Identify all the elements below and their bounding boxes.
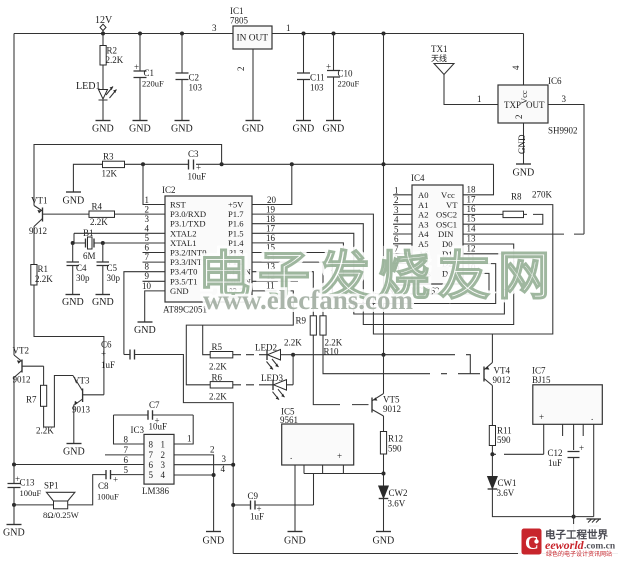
svg-text:IC6: IC6 <box>548 76 562 86</box>
svg-text:103: 103 <box>310 83 324 93</box>
svg-text:17: 17 <box>266 224 276 234</box>
svg-text:8: 8 <box>124 435 129 445</box>
ground (LED1) <box>96 120 111 122</box>
resistor R8 270K (OSC2-OSC1) <box>463 213 503 215</box>
svg-text:R9: R9 <box>296 316 307 326</box>
svg-text:1: 1 <box>145 195 150 205</box>
svg-text:+: + <box>326 62 331 72</box>
svg-text:GND: GND <box>171 124 193 135</box>
svg-text:14: 14 <box>467 224 477 234</box>
svg-text:P3.4/T0: P3.4/T0 <box>170 267 197 277</box>
svg-text:5: 5 <box>149 470 154 480</box>
svg-text:LED3: LED3 <box>261 373 283 383</box>
ground (IC6 pin2) <box>523 123 525 164</box>
svg-text:GND: GND <box>129 124 151 135</box>
svg-text:220uF: 220uF <box>142 79 164 89</box>
svg-text:LED2: LED2 <box>255 343 277 353</box>
svg-text:2: 2 <box>394 195 399 205</box>
resistor R4 <box>89 211 115 217</box>
wire +5V distribution line <box>125 163 189 165</box>
svg-text:A4: A4 <box>418 229 429 239</box>
svg-text:1: 1 <box>394 186 399 196</box>
svg-text:3: 3 <box>161 460 166 470</box>
svg-text:3.6V: 3.6V <box>388 499 406 509</box>
svg-text:2: 2 <box>514 115 524 120</box>
svg-text:8: 8 <box>149 440 154 450</box>
svg-text:4: 4 <box>145 224 150 234</box>
svg-text:Vcc: Vcc <box>519 90 529 104</box>
svg-text:+: + <box>101 349 106 359</box>
svg-text:15: 15 <box>467 214 477 224</box>
svg-text:3: 3 <box>222 454 227 464</box>
svg-text:GND: GND <box>373 536 395 547</box>
svg-text:OSC2: OSC2 <box>436 210 457 220</box>
svg-text:2: 2 <box>236 67 246 72</box>
svg-text:R1: R1 <box>38 264 49 274</box>
svg-text:P1.6: P1.6 <box>228 219 244 229</box>
svg-text:VT2: VT2 <box>13 346 30 356</box>
svg-text:2: 2 <box>210 445 215 455</box>
wire P1.3 to IC4 D3 (pin10) <box>252 253 489 295</box>
svg-text:+5V: +5V <box>228 200 244 210</box>
svg-text:30p: 30p <box>76 273 90 283</box>
svg-text:1uF: 1uF <box>548 458 562 468</box>
wire IC2 pin9 stub <box>143 280 166 282</box>
svg-text:7: 7 <box>149 450 154 460</box>
svg-text:R2: R2 <box>107 46 118 56</box>
svg-text:3: 3 <box>562 94 567 104</box>
svg-text:RST: RST <box>170 200 187 210</box>
svg-text:VT1: VT1 <box>31 196 48 206</box>
svg-text:9: 9 <box>145 271 150 281</box>
wire IC5 pins <box>294 465 296 532</box>
svg-text:TX1: TX1 <box>431 44 448 54</box>
svg-text:C5: C5 <box>107 263 118 273</box>
wire IC2 pin8 to C6 <box>124 272 165 355</box>
svg-text:IC2: IC2 <box>162 185 176 195</box>
svg-text:5: 5 <box>124 465 129 475</box>
svg-text:6: 6 <box>124 455 129 465</box>
svg-text:R11: R11 <box>497 426 512 436</box>
wire IC2 pin6 stub <box>143 252 166 254</box>
svg-text:5: 5 <box>394 225 399 235</box>
svg-text:GND: GND <box>63 447 85 458</box>
svg-text:8: 8 <box>145 262 150 272</box>
svg-text:C1: C1 <box>144 68 155 78</box>
svg-text:VT4: VT4 <box>494 366 511 376</box>
capacitor C8 100uF <box>106 470 111 479</box>
svg-text:P1.7: P1.7 <box>228 209 244 219</box>
svg-text:GND: GND <box>284 536 306 547</box>
resistor R2 <box>100 46 106 66</box>
svg-text:12K: 12K <box>102 169 118 179</box>
svg-text:100uF: 100uF <box>20 488 42 498</box>
svg-text:4: 4 <box>511 65 521 70</box>
svg-text:SH9902: SH9902 <box>548 126 578 136</box>
svg-text:XTAL2: XTAL2 <box>170 228 197 238</box>
wire top 12V/+5V rail <box>14 33 233 35</box>
svg-text:IC3: IC3 <box>131 425 145 435</box>
capacitor C4 30p <box>72 243 74 295</box>
wire P1.4 to IC4 D2 (pin11) <box>252 243 496 304</box>
resistor R12 590 <box>380 432 386 455</box>
svg-text:CW1: CW1 <box>498 478 517 488</box>
capacitor C10 <box>332 32 336 36</box>
svg-text:DIN: DIN <box>438 229 454 239</box>
svg-text:17: 17 <box>467 195 477 205</box>
svg-text:1: 1 <box>161 440 166 450</box>
svg-text:C9: C9 <box>248 491 259 501</box>
svg-text:IC1: IC1 <box>230 6 244 16</box>
wire P1.6 to IC4 D0 (pin13) <box>252 224 514 325</box>
svg-text:C10: C10 <box>338 69 354 79</box>
svg-text:A0: A0 <box>418 190 429 200</box>
resistor R9 <box>310 316 316 335</box>
svg-text:VT5: VT5 <box>383 395 400 405</box>
svg-text:18: 18 <box>467 185 477 195</box>
wire P1.5 to IC4 D1 (pin12) <box>252 233 504 314</box>
svg-text:1: 1 <box>286 23 291 33</box>
svg-text:GND: GND <box>62 297 84 308</box>
svg-text:OSC1: OSC1 <box>436 219 457 229</box>
svg-text:10uF: 10uF <box>149 422 168 432</box>
resistor R10 <box>320 316 326 335</box>
svg-text:GND: GND <box>92 297 114 308</box>
svg-text:270K: 270K <box>532 190 553 200</box>
wire IC3 pin2 down <box>174 455 214 532</box>
svg-text:GND: GND <box>323 124 345 135</box>
svg-text:C11: C11 <box>310 73 325 83</box>
svg-text:GND: GND <box>203 536 225 547</box>
wire IC7 pins <box>544 424 594 516</box>
svg-text:6M: 6M <box>83 251 96 261</box>
svg-text:C7: C7 <box>149 400 160 410</box>
wire bottom rail <box>233 553 618 555</box>
svg-text:R8: R8 <box>511 192 522 202</box>
svg-text:7: 7 <box>124 445 129 455</box>
svg-text:R7: R7 <box>26 395 37 405</box>
svg-text:6: 6 <box>145 243 150 253</box>
svg-text:16: 16 <box>467 204 477 214</box>
svg-text:GND: GND <box>3 528 25 539</box>
svg-text:GND: GND <box>242 124 264 135</box>
svg-text:.com.cn: .com.cn <box>584 542 616 552</box>
svg-text:590: 590 <box>388 444 402 454</box>
wire P1.7 to IC4 VT (pin17) <box>252 205 553 334</box>
svg-text:7: 7 <box>145 252 150 262</box>
wire VT1 emitter feed <box>34 145 222 206</box>
svg-text:R5: R5 <box>212 342 223 352</box>
svg-text:4: 4 <box>394 215 399 225</box>
wire IC3 pin1 to C7 <box>174 415 193 444</box>
svg-text:Vcc: Vcc <box>441 190 455 200</box>
svg-text:AT89C2051: AT89C2051 <box>163 305 207 315</box>
wire IC3 pin4 <box>174 474 214 476</box>
svg-text:C4: C4 <box>76 263 87 273</box>
svg-text:4: 4 <box>161 470 166 480</box>
svg-text:R3: R3 <box>103 152 114 162</box>
svg-text:P3.5/T1: P3.5/T1 <box>170 276 197 286</box>
svg-text:1uF: 1uF <box>101 360 115 370</box>
svg-text:IC4: IC4 <box>411 173 425 183</box>
svg-text:10: 10 <box>142 281 152 291</box>
svg-text:+: + <box>539 412 544 422</box>
svg-text:12V: 12V <box>95 15 113 26</box>
wire RST feed <box>143 164 165 204</box>
capacitor C1 <box>138 32 142 36</box>
transistor VT4 collector resistor R11 590 <box>489 426 495 446</box>
wire P3.7 to LED line <box>186 291 293 385</box>
svg-text:10uF: 10uF <box>188 172 207 182</box>
svg-text:5: 5 <box>145 233 150 243</box>
svg-text:C8: C8 <box>98 481 109 491</box>
wire LED2 line to VT4 base <box>291 353 295 357</box>
svg-text:2.2K: 2.2K <box>209 392 227 402</box>
svg-text:C2: C2 <box>189 73 200 83</box>
svg-text:19: 19 <box>266 205 276 215</box>
svg-text:GND: GND <box>293 124 315 135</box>
ground (earth, right bottom) <box>587 518 602 520</box>
svg-text:GND: GND <box>63 196 85 207</box>
svg-text:30p: 30p <box>107 273 121 283</box>
svg-text:BJ15: BJ15 <box>532 375 551 385</box>
svg-text:P3.1/TXD: P3.1/TXD <box>170 219 206 229</box>
wire P1.0 stub <box>252 280 298 282</box>
svg-text:CW2: CW2 <box>389 488 408 498</box>
svg-text:+: + <box>134 62 139 72</box>
svg-text:3: 3 <box>394 205 399 215</box>
svg-text:SP1: SP1 <box>44 481 59 491</box>
svg-text:8Ω/0.25W: 8Ω/0.25W <box>43 510 79 520</box>
svg-text:C12: C12 <box>548 448 563 458</box>
svg-text:LED1: LED1 <box>76 81 100 92</box>
svg-text:.: . <box>591 412 593 422</box>
wire +5V to IC4 Vcc (pin18) <box>463 164 494 195</box>
svg-text:3: 3 <box>212 23 217 33</box>
wire IC1 pin2 to ground <box>252 49 254 121</box>
svg-text:R12: R12 <box>388 434 403 444</box>
svg-text:2.2K: 2.2K <box>284 338 302 348</box>
wire IC3 pin6 line to left border <box>14 464 144 466</box>
svg-text:7805: 7805 <box>230 16 249 26</box>
svg-text:9013: 9013 <box>72 405 91 415</box>
svg-text:IN OUT: IN OUT <box>237 34 269 44</box>
capacitor C11 <box>302 32 306 36</box>
svg-text:P1.4: P1.4 <box>228 238 244 248</box>
wire P1.1 to R9 <box>252 272 313 316</box>
IC6 TXP OUT (SH9902) <box>523 34 525 86</box>
svg-text:9012: 9012 <box>29 226 47 236</box>
svg-text:C13: C13 <box>20 478 36 488</box>
svg-text:GND: GND <box>513 168 535 179</box>
capacitor C3 <box>189 160 194 170</box>
svg-text:6: 6 <box>394 234 399 244</box>
svg-text:18: 18 <box>266 214 276 224</box>
svg-text:D0: D0 <box>442 239 453 249</box>
svg-text:.: . <box>290 451 292 461</box>
svg-text:1uF: 1uF <box>250 512 264 522</box>
zener CW1 3.6V <box>488 477 498 489</box>
svg-text:6: 6 <box>149 460 154 470</box>
svg-text:20: 20 <box>267 195 277 205</box>
svg-text:P3.0/RXD: P3.0/RXD <box>170 209 206 219</box>
svg-text:XTAL1: XTAL1 <box>170 238 197 248</box>
svg-text:2: 2 <box>145 205 150 215</box>
svg-text:eeworld: eeworld <box>545 538 585 552</box>
svg-text:220uF: 220uF <box>338 79 360 89</box>
svg-text:R4: R4 <box>92 202 103 212</box>
svg-text:+: + <box>337 451 342 461</box>
capacitor C13 100uF <box>12 503 16 507</box>
svg-text:590: 590 <box>497 435 511 445</box>
wire IC3 pin7 stub <box>105 454 144 456</box>
svg-text:100uF: 100uF <box>97 492 119 502</box>
wire IC4 Vss pin9 to ground <box>404 273 412 285</box>
resistor R6 <box>210 382 233 388</box>
svg-text:GND: GND <box>170 286 189 296</box>
svg-text:1: 1 <box>477 94 482 104</box>
svg-text:天线: 天线 <box>431 53 447 63</box>
wire left border (12V down to VT2 emitter) <box>13 34 15 356</box>
wire IC3 pin3 <box>174 464 233 466</box>
svg-text:绿色的电子设计资讯网站: 绿色的电子设计资讯网站 <box>546 550 612 558</box>
node center +5V vertical <box>382 32 386 36</box>
wire P1.2 to R10 <box>252 262 323 316</box>
zener CW2 3.6V <box>379 486 389 498</box>
resistor R5 <box>210 352 233 358</box>
svg-text:103: 103 <box>189 83 203 93</box>
resistor R3 <box>73 164 102 192</box>
wire IC2 pin7 stub <box>143 261 166 263</box>
svg-text:VT: VT <box>446 200 458 210</box>
wire pin20 +5V riser <box>252 164 292 204</box>
svg-text:GND: GND <box>517 134 527 154</box>
svg-text:A5: A5 <box>418 239 429 249</box>
svg-text:P1.5: P1.5 <box>228 228 244 238</box>
svg-text:9012: 9012 <box>383 404 401 414</box>
svg-text:GND: GND <box>92 124 114 135</box>
resistor R1 <box>31 265 37 286</box>
capacitor C5 30p <box>102 243 104 295</box>
svg-text:+: + <box>579 443 584 453</box>
resistor R7 <box>43 366 45 385</box>
svg-text:+: + <box>113 475 118 485</box>
svg-text:R6: R6 <box>212 373 223 383</box>
svg-text:3: 3 <box>145 214 150 224</box>
svg-text:GND: GND <box>134 325 156 336</box>
svg-text:2: 2 <box>161 450 166 460</box>
capacitor C2 <box>180 32 184 36</box>
svg-text:A1: A1 <box>418 200 429 210</box>
svg-text:2.2K: 2.2K <box>90 217 108 227</box>
wire IC3 pin8 / C7 riser <box>114 415 145 444</box>
svg-text:3.6V: 3.6V <box>497 488 515 498</box>
svg-text:16: 16 <box>266 233 276 243</box>
svg-text:2.2K: 2.2K <box>106 55 124 65</box>
wire IC4 DIN to IC6 pin3 <box>463 233 584 235</box>
svg-text:13: 13 <box>467 234 477 244</box>
svg-text:9012: 9012 <box>493 375 511 385</box>
wire IC4 A0-A7 stubs <box>393 195 412 264</box>
svg-text:www.elecfans.com: www.elecfans.com <box>203 285 413 315</box>
svg-text:1: 1 <box>187 434 192 444</box>
svg-text:C3: C3 <box>188 149 199 159</box>
svg-text:2.2K: 2.2K <box>35 274 53 284</box>
svg-text:LM386: LM386 <box>142 486 170 496</box>
wire IC2 pin10 to ground <box>145 291 165 322</box>
svg-text:IC7: IC7 <box>532 366 546 376</box>
svg-text:4: 4 <box>221 464 226 474</box>
svg-text:A2: A2 <box>418 210 429 220</box>
svg-text:2.2K: 2.2K <box>209 362 227 372</box>
svg-text:A3: A3 <box>418 219 429 229</box>
